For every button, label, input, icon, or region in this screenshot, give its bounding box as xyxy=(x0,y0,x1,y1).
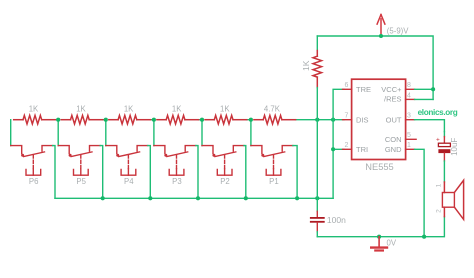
svg-text:5: 5 xyxy=(407,132,411,139)
wire: row segment after R5 xyxy=(103,119,106,121)
svg-text:DIS: DIS xyxy=(356,115,369,124)
wire: P1 right pin drop to bus xyxy=(293,146,297,199)
svg-text:OUT: OUT xyxy=(386,115,402,124)
node: row junction at pullup line xyxy=(315,118,319,122)
node: bus junction P2 xyxy=(244,196,248,200)
svg-text:8: 8 xyxy=(407,82,411,89)
wire: row segment after R3 xyxy=(198,119,202,121)
node: rail junction gnd-drop xyxy=(422,235,426,239)
wire: bus up to TRI tie xyxy=(332,149,334,198)
node: supply junction xyxy=(379,34,383,38)
svg-text:VCC+: VCC+ xyxy=(381,85,402,94)
wire: P2 right pin drop to bus xyxy=(244,146,246,199)
wire: pullup top lead xyxy=(316,36,318,51)
svg-text:1K: 1K xyxy=(220,104,230,113)
svg-text:1K: 1K xyxy=(301,60,311,71)
pin 6 TRE stub xyxy=(343,88,352,90)
ground symbol 0V xyxy=(371,237,387,251)
node: bus junction P4 xyxy=(148,196,152,200)
wire: OUT pin3 to coupling cap xyxy=(415,120,445,132)
svg-text:P2: P2 xyxy=(220,177,230,186)
capacitor 100n xyxy=(316,198,318,211)
node: tie at TRI xyxy=(331,147,335,151)
wire: row segment after R4 xyxy=(150,119,154,121)
node: row junction at x=154 xyxy=(152,118,156,122)
resistor 1K (row position 5) xyxy=(205,115,247,124)
wire: cap to speaker xyxy=(443,161,445,182)
wire: P4 right pin drop to bus xyxy=(148,146,151,199)
svg-text:NE555: NE555 xyxy=(365,162,393,172)
wire: P6 right pin drop to bus xyxy=(53,146,55,199)
wire: drop junction to P3 left pin xyxy=(153,120,155,146)
svg-text:CON: CON xyxy=(385,135,402,144)
resistor 1K pull-up xyxy=(313,51,322,88)
svg-text:P1: P1 xyxy=(269,177,279,186)
node: row junction at x=202 xyxy=(200,118,204,122)
svg-text:3: 3 xyxy=(407,113,411,120)
resistor 1K (row position 3) xyxy=(109,115,151,124)
svg-text:1: 1 xyxy=(407,142,411,149)
wire: resistor row start drop to P6 xyxy=(10,120,12,146)
wire: pullup bottom lead xyxy=(316,88,318,120)
pin 2 TRI stub xyxy=(343,148,352,150)
speaker SP1 xyxy=(442,180,463,219)
svg-text:P4: P4 xyxy=(124,177,134,186)
power symbol (5-9)V supply arrow xyxy=(377,15,385,37)
wire: drop junction to P1 left pin xyxy=(250,120,252,146)
wire: drop junction to P5 left pin xyxy=(57,120,59,146)
wire: P3 right pin drop to bus xyxy=(196,146,198,199)
wire: VCC pin8 to supply line xyxy=(415,88,434,90)
svg-text:P3: P3 xyxy=(172,177,182,186)
wire: drop junction to P2 left pin xyxy=(201,120,203,146)
pin 8 VCC+ stub xyxy=(406,88,415,90)
svg-text:7: 7 xyxy=(345,113,349,120)
wire: GND pin1 drop xyxy=(415,149,425,236)
svg-text:0V: 0V xyxy=(387,238,397,247)
capacitor 10uF xyxy=(443,132,445,137)
svg-text:6: 6 xyxy=(345,82,349,89)
push button P6 xyxy=(11,146,53,176)
svg-text:P6: P6 xyxy=(29,177,39,186)
svg-text:4.7K: 4.7K xyxy=(264,104,281,113)
node: bus junction P1 xyxy=(295,196,299,200)
node: junction pin8/supply xyxy=(431,87,435,91)
svg-text:+: + xyxy=(436,137,440,144)
svg-text:1K: 1K xyxy=(124,104,134,113)
svg-text:P5: P5 xyxy=(76,177,86,186)
wire: TRE tie xyxy=(333,89,344,119)
svg-text:TRE: TRE xyxy=(356,85,371,94)
op-amp/timer IC NE555 U1 box xyxy=(352,79,406,159)
wire: row segment after R6 xyxy=(55,119,58,121)
svg-text:1: 1 xyxy=(436,183,443,187)
resistor 4.7K (row position 6) xyxy=(254,115,296,124)
node: rail junction 0V symbol xyxy=(377,235,381,239)
svg-text:2: 2 xyxy=(345,142,349,149)
push button P5 xyxy=(58,146,100,176)
push button P2 xyxy=(202,146,244,176)
push button P3 xyxy=(154,146,196,176)
resistor 1K (row position 4) xyxy=(157,115,199,124)
wire: TRI tie xyxy=(333,120,344,150)
svg-text:2: 2 xyxy=(436,209,443,213)
svg-text:10uF: 10uF xyxy=(450,138,459,156)
push button P1 xyxy=(251,146,293,176)
wire: drop junction to P4 left pin xyxy=(105,120,107,146)
push button P4 xyxy=(106,146,148,176)
wire: P5 right pin drop to bus xyxy=(100,146,103,199)
pin 3 OUT stub xyxy=(406,119,415,121)
wire: pullup line down to bus xyxy=(316,120,318,199)
svg-text:1K: 1K xyxy=(76,104,86,113)
svg-text:elonics.org: elonics.org xyxy=(418,108,458,117)
node: bus junction 100n xyxy=(315,196,319,200)
node: bus junction P5 xyxy=(101,196,105,200)
pin 7 DIS stub xyxy=(343,119,352,121)
svg-text:(5-9)V: (5-9)V xyxy=(387,26,409,35)
wire: row from 4.7K to DIS xyxy=(295,119,344,121)
svg-text:GND: GND xyxy=(385,145,402,154)
pin 5 CON stub xyxy=(406,138,417,140)
svg-text:1K: 1K xyxy=(29,104,39,113)
resistor 1K (row position 2) xyxy=(61,115,103,124)
wire: row segment after R2 xyxy=(247,119,251,121)
svg-text:/RES: /RES xyxy=(384,95,402,104)
svg-text:1K: 1K xyxy=(172,104,182,113)
pin 1 GND stub xyxy=(406,148,415,150)
node: row junction at x=106 xyxy=(104,118,108,122)
svg-text:100n: 100n xyxy=(327,215,346,225)
wire: /RES pin4 to supply line xyxy=(415,98,434,100)
resistor 1K (row position 1) xyxy=(14,115,56,124)
node: row junction at TRE/TRI tie xyxy=(331,118,335,122)
svg-text:TRI: TRI xyxy=(356,145,368,154)
wire: supply rail top xyxy=(317,36,433,99)
node: bus junction P3 xyxy=(196,196,200,200)
pin 4 /RES stub xyxy=(406,98,415,100)
node: row junction at x=251 xyxy=(249,118,253,122)
wire: common bus under buttons xyxy=(55,197,333,199)
wire: 0V rail xyxy=(317,217,444,237)
node: row junction at x=58 xyxy=(56,118,60,122)
svg-text:4: 4 xyxy=(407,92,411,99)
